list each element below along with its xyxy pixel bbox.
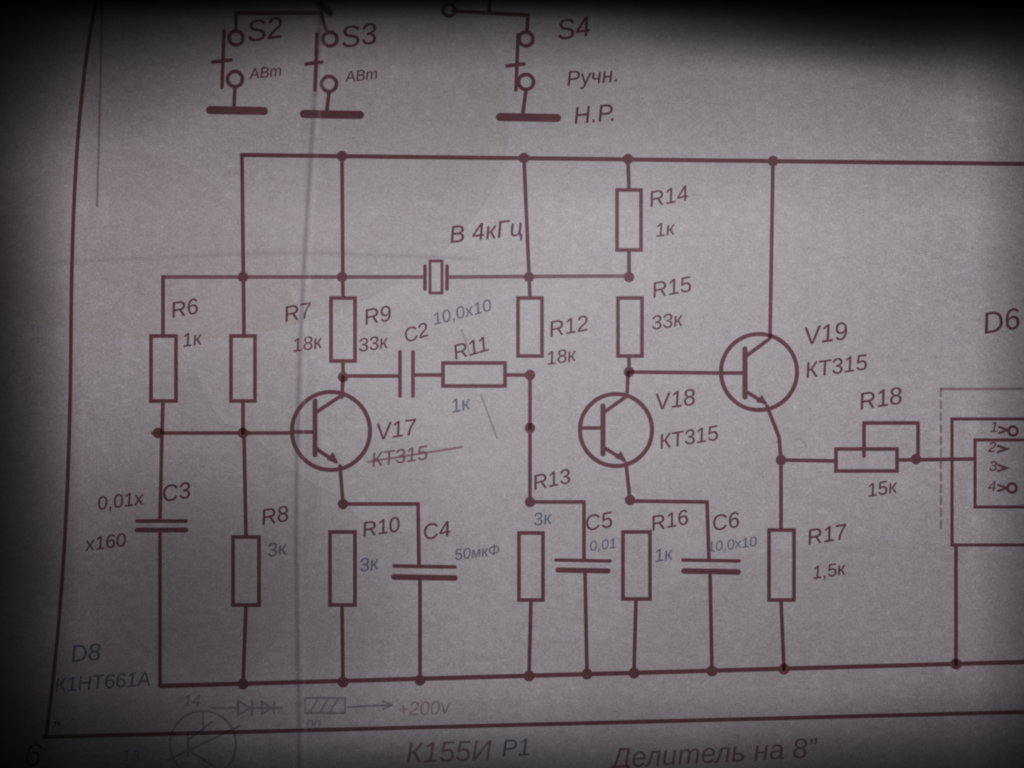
node V18 emitter junction — [625, 495, 635, 505]
resistor R16 — [623, 532, 650, 599]
wire R15 bottom lead — [627, 356, 631, 372]
node gnd D6 — [951, 659, 962, 670]
resistor R7 — [231, 336, 255, 401]
capacitor C3 — [137, 521, 186, 530]
wire R12 to base node V18 — [528, 375, 532, 428]
wire node to R18 — [781, 460, 836, 461]
wire R16 bottom lead — [634, 599, 636, 673]
wire V18 collector lead — [627, 373, 628, 396]
wire V19 collector column — [770, 161, 773, 338]
wire V17 base — [153, 431, 292, 435]
node V17 emitter junction — [338, 499, 348, 509]
pin 1 arrow — [999, 427, 1008, 433]
resistor R18 — [836, 449, 897, 471]
wire R17 top lead — [779, 460, 783, 530]
node gnd R17 — [779, 664, 790, 675]
wire second bus left segment — [163, 275, 424, 279]
wire D6 ground lead — [954, 545, 958, 664]
crease highlight — [302, 0, 328, 768]
wire C3 column — [160, 433, 162, 519]
node gnd R8 — [238, 679, 249, 690]
wire R18 bypass loop — [864, 423, 918, 456]
wire R10 bottom lead — [342, 605, 343, 684]
strikethrough on KT315 — [368, 447, 462, 462]
node V18 collector junction — [624, 367, 634, 377]
wire R7 bottom lead — [241, 401, 245, 433]
switch S2 — [213, 13, 321, 105]
resistor R10 — [330, 532, 355, 605]
capacitor C2 — [400, 352, 413, 396]
wire R9 column upper — [342, 156, 343, 298]
transistor V18 — [580, 394, 652, 466]
wire V19 emitter lead — [767, 406, 781, 459]
pin 4 circle — [1008, 484, 1017, 493]
pencil scribble near V19 — [796, 439, 806, 448]
wire emitter node to C6 — [630, 501, 709, 559]
pencil stroke near R11 — [462, 330, 470, 355]
resistor R13 — [519, 533, 543, 600]
wire stub top edge — [489, 0, 490, 12]
resistor R8 — [233, 537, 259, 605]
capacitor C6 — [683, 560, 739, 572]
transistor V17 — [291, 392, 370, 470]
wire second bus right segment — [448, 276, 629, 277]
margin line top-left — [97, 0, 102, 206]
crystal B1 — [425, 261, 447, 293]
node gnd R13 — [524, 671, 535, 682]
wire collector node to C2 — [343, 374, 399, 378]
node base wire R6 column — [153, 428, 163, 438]
pin 1 circle — [1009, 427, 1018, 436]
resistor R11 — [443, 363, 505, 386]
pencil transistor sketch circle — [170, 711, 236, 768]
resistor R9 — [331, 298, 355, 361]
pencil arrow — [348, 701, 392, 709]
wire R6 top lead — [161, 277, 165, 336]
ground of S3 — [304, 114, 360, 115]
wire R11 to R12 column — [505, 373, 530, 377]
node V18 base — [525, 423, 535, 433]
switch S3 — [306, 13, 337, 110]
node R12 bottom junction — [525, 370, 535, 380]
resistor R14 — [617, 190, 641, 250]
node top bus V19 collector — [768, 156, 778, 166]
wire R13 bottom lead — [529, 600, 531, 676]
pencil stroke near V17 — [481, 395, 497, 438]
pencil diode doodle — [238, 701, 252, 715]
wire R14 top lead — [628, 159, 629, 190]
resistor R12 — [518, 298, 542, 356]
wire R14 bottom lead — [627, 250, 631, 277]
IC D6 outer box — [952, 419, 1024, 545]
node V17 collector — [338, 372, 348, 382]
dark blob top center — [318, 2, 330, 13]
wire C6 bottom lead — [710, 572, 712, 671]
node second bus R9 column — [337, 272, 347, 282]
resistor R6 — [151, 336, 176, 401]
frame bottom border line — [44, 712, 1024, 737]
wire C2 to R11 — [413, 373, 443, 377]
crease horizontal faint — [45, 253, 478, 263]
node gnd C6 — [707, 666, 718, 677]
node R18 output — [911, 454, 921, 464]
wire R9 bottom lead — [341, 361, 345, 377]
pencil diode doodle 2 — [262, 702, 274, 714]
resistor R17 — [769, 530, 794, 600]
wire V17 collector lead — [342, 377, 343, 397]
wire R17 bottom lead — [781, 600, 784, 669]
ground of S4 — [500, 117, 557, 118]
node gnd C5 — [582, 669, 593, 680]
node top bus R14 column — [623, 154, 633, 164]
dashed boundary D6 — [940, 389, 942, 528]
switch S4 — [443, 4, 534, 112]
node R13 top junction — [525, 497, 535, 507]
ground of S2 — [210, 110, 264, 111]
node gnd R10 — [338, 677, 349, 688]
wire R18 to D6 — [897, 459, 975, 460]
wire C5 bottom lead — [585, 571, 587, 674]
node gnd C4 — [415, 675, 426, 686]
wire R8 leads — [243, 433, 246, 685]
wire R6 bottom lead — [162, 401, 163, 433]
wire V17 emitter lead — [340, 466, 343, 503]
node top bus R12 column — [519, 153, 529, 163]
wire V18 emitter lead — [626, 463, 630, 500]
faint boundary line D6 — [941, 388, 1024, 390]
wire ground bus — [160, 662, 1024, 686]
node second bus R7 column — [238, 272, 248, 282]
pencil transistor sketch lines — [168, 711, 240, 766]
capacitor C4 — [394, 566, 455, 578]
node R17 R18 junction — [776, 455, 786, 465]
wire R7 column upper — [242, 155, 244, 336]
wire R12 column upper — [524, 158, 530, 298]
wire V18 base to R13 — [528, 428, 532, 502]
node second bus R12 column — [524, 272, 534, 282]
wire top supply bus — [242, 155, 1024, 164]
transistor V19 — [721, 334, 797, 410]
pin 2 arrow — [998, 446, 1007, 452]
pencil hatched box — [305, 698, 345, 713]
crease vertical — [296, 0, 322, 768]
node R14 R15 junction — [624, 272, 634, 282]
wire emitter node to C4 — [343, 504, 419, 565]
wire R13 node to C5 — [530, 502, 584, 559]
node gnd R16 — [629, 668, 640, 679]
frame left border line — [46, 0, 96, 737]
pin 3 arrow — [998, 465, 1007, 471]
resistor R15 — [618, 298, 642, 356]
pin 4 arrow — [998, 485, 1007, 491]
node top bus R9 column — [337, 151, 347, 161]
node base wire R7 column — [238, 428, 248, 438]
wire C3 bottom lead to ground bus — [158, 530, 162, 686]
wire V19 base — [629, 372, 721, 373]
IC D6 inner box — [975, 440, 1024, 507]
pencil wire doodle — [212, 707, 282, 709]
wire C4 bottom lead — [418, 578, 422, 684]
capacitor C5 — [556, 560, 610, 571]
